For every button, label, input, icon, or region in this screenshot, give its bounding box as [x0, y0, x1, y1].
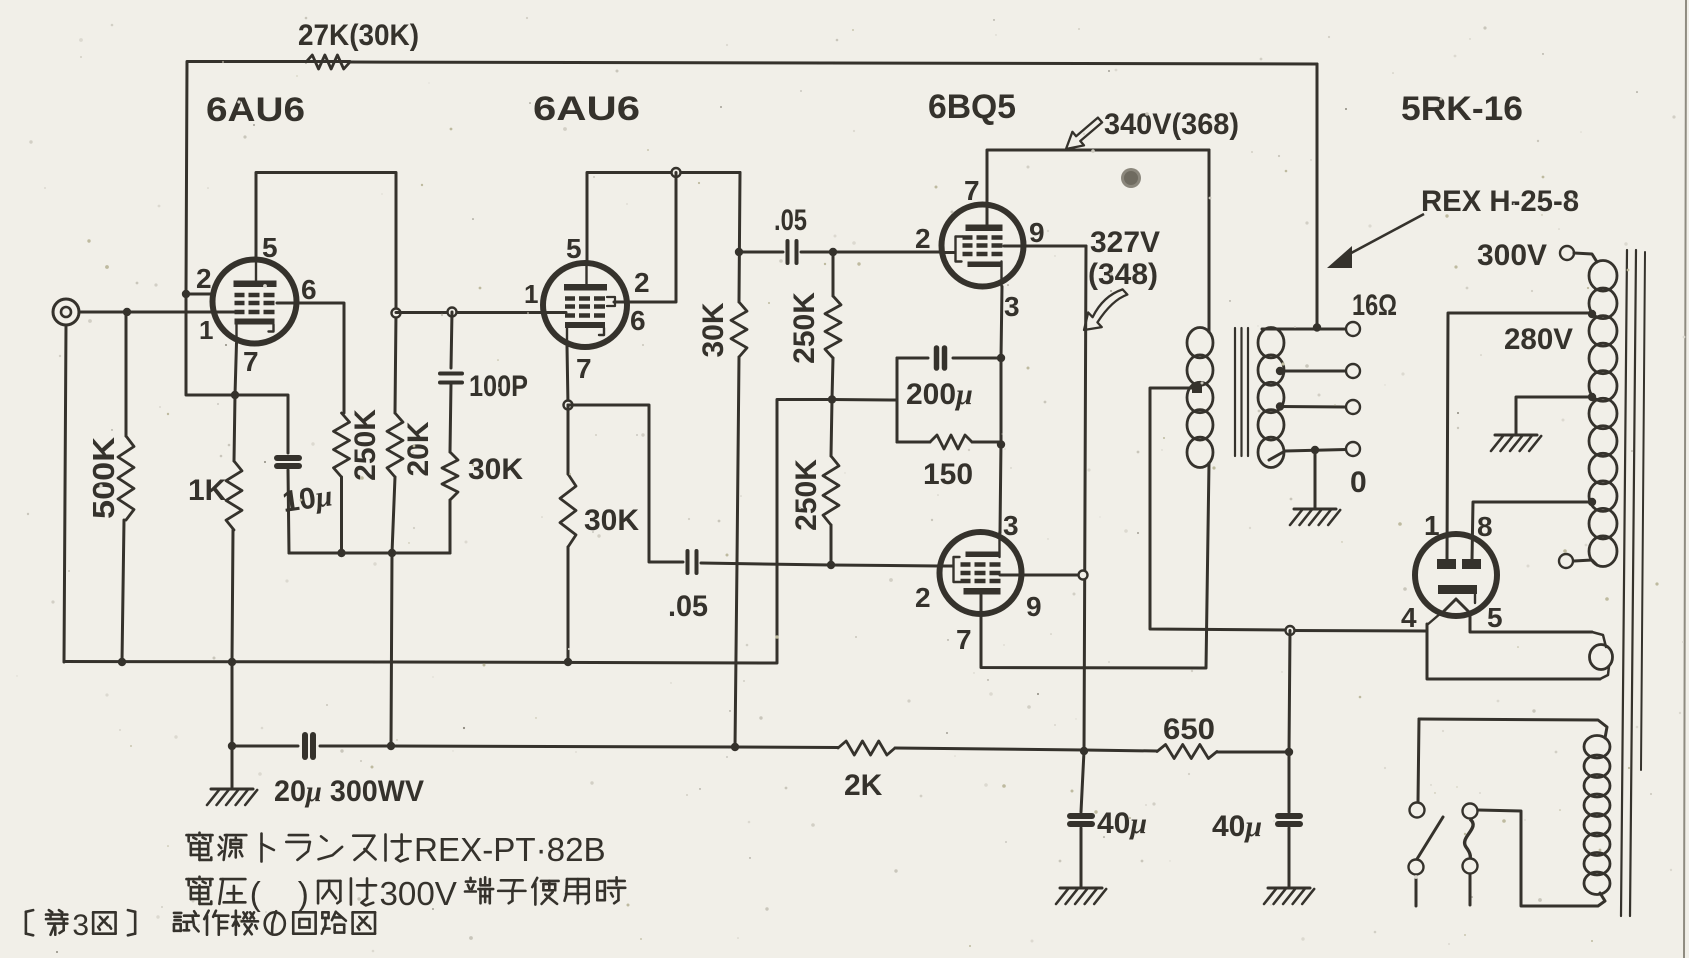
label 200u	[906, 378, 973, 411]
node: 250K a top	[829, 248, 837, 256]
wire: V4 pin3 cathode lead up	[1000, 442, 1001, 533]
node: HV center tap	[1588, 393, 1596, 401]
note line 1: power transformer is REX-PT-82B	[186, 832, 605, 869]
V2 pin label 7	[576, 353, 592, 384]
label 250K a (rotated)	[788, 292, 821, 364]
label 1K	[188, 474, 227, 507]
svg-text:3: 3	[72, 909, 89, 942]
tube V1 internals	[234, 261, 277, 343]
svg-text:150: 150	[923, 458, 973, 491]
svg-text:340V(368): 340V(368)	[1104, 108, 1239, 141]
wire: 30K b bottom lead	[567, 547, 570, 662]
wire: feedback top-left corner down left side	[186, 62, 350, 295]
capacitor C4 .05 a	[788, 241, 797, 263]
wire: 500K bottom lead	[122, 520, 124, 662]
label 100P	[469, 370, 528, 403]
node: 500K on ground bus	[118, 658, 126, 666]
wire: 40u a ground lead	[1080, 828, 1083, 887]
switch S2 wavy blade	[1465, 819, 1474, 858]
svg-text:250K: 250K	[790, 459, 823, 531]
node: B+ junction	[1286, 626, 1295, 635]
node: 500K top junction	[123, 308, 131, 316]
label 150	[923, 458, 973, 491]
svg-text:5: 5	[1487, 602, 1503, 633]
wire: V3 pin9 screen lead	[1004, 245, 1086, 248]
wire: mid junction to cathode box	[832, 398, 897, 402]
wire: .05 b to V4 grid	[701, 563, 939, 566]
node: main ground junction	[228, 742, 236, 750]
wire: 40u b lead	[1288, 752, 1291, 812]
svg-text:250K: 250K	[349, 409, 382, 481]
V3 pin label 3	[1004, 291, 1020, 322]
tube V3 internals	[956, 225, 1003, 287]
capacitor C8 40u b	[1278, 816, 1300, 824]
label 40u a	[1097, 807, 1147, 840]
wire: V3 pin7 plate lead up	[986, 151, 989, 227]
V3 pin label 2	[915, 223, 931, 254]
caption: Fig.3 prototype circuit diagram	[26, 909, 375, 942]
wire: jack sleeve down to ground bus	[64, 325, 66, 662]
V5 pin label 4	[1401, 602, 1417, 633]
terminal 16 ohm	[1346, 322, 1360, 336]
wire: bias box bottom	[897, 441, 1001, 444]
wire: V2 cathode to .05 cap	[568, 405, 683, 562]
input jack J1 inner	[61, 307, 71, 317]
wire: V3 pin3 cathode lead	[1001, 287, 1002, 359]
svg-text:2: 2	[196, 263, 212, 294]
terminal 300V	[1560, 246, 1574, 260]
capacitor C7 40u a	[1070, 816, 1092, 824]
wire: B+ bus segment c	[895, 748, 1157, 751]
wire: cathode node to 10u	[235, 395, 288, 453]
resistor R2 1K	[226, 461, 242, 530]
wire: 250K a leads	[832, 252, 833, 399]
wire: screen supply drop	[1084, 246, 1086, 752]
capacitor C2 10u	[277, 458, 299, 466]
tube V5 envelope	[1415, 534, 1497, 616]
resistor R8 250K grid a	[825, 296, 841, 358]
node: 20K bottom / B+ feed	[388, 549, 396, 557]
node: 16ohm feedback junction	[1313, 323, 1321, 331]
svg-text:1: 1	[199, 315, 213, 345]
wire: 10u bottom lead	[288, 470, 289, 553]
wire: 40u b ground lead	[1288, 828, 1291, 887]
resistor R10 150	[930, 435, 972, 449]
wire: HV center tap to ground	[1516, 397, 1592, 434]
label 10u	[280, 479, 334, 519]
wire: V5 pin4 lead and B+ out	[1427, 624, 1600, 679]
V1 pin label 5	[262, 232, 278, 263]
wire: B+ bus segment b	[320, 746, 838, 748]
wire: 30K b top lead	[567, 405, 570, 474]
annotation arrow REXH	[1327, 214, 1424, 268]
node: cathode line top	[997, 354, 1005, 362]
svg-text:1K: 1K	[188, 474, 227, 507]
V5 plate 1	[1437, 559, 1456, 569]
svg-text:30K: 30K	[584, 504, 639, 537]
V5 pin label 5	[1487, 602, 1503, 633]
wire: V4 pin9 screen lead	[1000, 574, 1083, 577]
wire: secondary tap 2	[1280, 405, 1346, 409]
resistor R7 30K plate feed	[731, 302, 747, 357]
V1 pin label 7	[243, 346, 259, 377]
ground: OPT secondary	[1290, 509, 1340, 525]
OPT core	[1235, 328, 1248, 456]
ground: 40u b	[1264, 888, 1314, 904]
V2 pin label 1	[524, 279, 538, 309]
svg-text:6BQ5: 6BQ5	[928, 88, 1016, 126]
svg-text:280V: 280V	[1504, 323, 1573, 356]
resistor R12 650	[1157, 745, 1217, 759]
svg-text:30K: 30K	[468, 453, 523, 486]
svg-text:300V: 300V	[379, 876, 456, 913]
svg-text:5RK-16: 5RK-16	[1401, 90, 1523, 128]
svg-text:500K: 500K	[86, 436, 121, 519]
wire: 30K c bottom lead	[735, 357, 739, 747]
capacitor C1 20u 300WV	[305, 735, 313, 757]
terminal tap1	[1346, 364, 1360, 378]
wire: OPT primary bottom lead	[1206, 463, 1209, 668]
node: OPT primary tap	[1192, 383, 1202, 393]
node: cathode line bottom	[997, 440, 1005, 448]
svg-text:1: 1	[524, 279, 538, 309]
node: 1K/ground riser on bus1	[228, 658, 236, 666]
wire: V5 pin1 lead from 280V	[1447, 313, 1592, 560]
V1 pin label 6	[301, 274, 317, 305]
svg-text:7: 7	[576, 353, 592, 384]
T2 5V winding	[1590, 645, 1613, 670]
switch S1 blade	[1417, 817, 1443, 859]
label 20u 300WV	[274, 775, 424, 808]
node: 30K b on ground bus	[564, 658, 572, 666]
wire: V2 pin2/6 hook lead	[614, 173, 676, 303]
svg-text:300V: 300V	[1477, 239, 1547, 272]
note line 2: voltages in parens when using 300V terminal	[186, 876, 625, 913]
svg-text:7: 7	[243, 346, 259, 377]
V5 cathode bar	[1438, 585, 1477, 594]
svg-text:2: 2	[915, 223, 931, 254]
V5 filament	[1441, 599, 1471, 614]
svg-text:40μ: 40μ	[1212, 810, 1262, 843]
label 300V	[1477, 239, 1547, 272]
node: HV tap 280V b	[1588, 498, 1596, 506]
wire: V5 pin5 lead	[1470, 612, 1592, 632]
T2 primary winding	[1584, 736, 1610, 895]
label 30K a	[468, 453, 523, 486]
input jack J1 outer	[53, 299, 79, 325]
capacitor C6 200u	[937, 348, 945, 368]
svg-text:327V: 327V	[1090, 226, 1160, 259]
OPT secondary winding	[1258, 328, 1284, 468]
wire: S2 to mains	[1469, 874, 1472, 905]
wire: 1K bottom lead	[232, 530, 233, 662]
label 40u b	[1212, 810, 1262, 843]
label 0	[1350, 466, 1367, 499]
label .05 b	[668, 590, 708, 623]
T2 HV winding	[1589, 261, 1617, 567]
wire: V1 pin2 lead	[186, 293, 214, 296]
wire: primary top lead	[1419, 719, 1607, 738]
wire: V1 pin7 lead down	[235, 343, 237, 395]
label 250K b (rotated)	[790, 459, 823, 531]
wire: 250K b leads	[831, 400, 832, 566]
wire: B+ feed riser	[391, 553, 392, 746]
tube V3 envelope	[942, 205, 1024, 287]
svg-text:REX-PT·82B: REX-PT·82B	[414, 832, 606, 869]
label tube V2 6AU6	[533, 90, 640, 128]
wire: 500K top lead	[125, 312, 128, 436]
wire: V3 pin2 grid lead	[941, 251, 955, 254]
wire: V2 pin5 lead up	[586, 173, 589, 264]
wire: OPT primary top lead	[1208, 150, 1211, 332]
wire: .05 a to V3 grid	[801, 251, 941, 254]
OPT primary winding	[1187, 328, 1213, 468]
node: 250K b bottom on grid wire	[827, 561, 835, 569]
svg-text:5: 5	[262, 232, 278, 263]
svg-text:REX H-25-8: REX H-25-8	[1421, 185, 1579, 218]
V2 grid hook	[607, 297, 615, 306]
V2 pin label 2	[634, 267, 650, 298]
svg-text:5: 5	[566, 233, 582, 264]
wire: V4 pin2 grid lead	[939, 565, 953, 568]
resistor R9 250K grid b	[823, 456, 839, 525]
node: B+ bus right end	[1285, 748, 1293, 756]
wire: OPT tap to B+	[1150, 388, 1288, 630]
ground: main	[207, 789, 257, 805]
V5 plate 2	[1462, 559, 1481, 569]
svg-text:.05: .05	[668, 590, 708, 623]
label 30K b	[584, 504, 639, 537]
svg-text:6AU6: 6AU6	[533, 90, 640, 128]
node: screen node on bus	[1080, 747, 1088, 755]
annotation arrow 340V	[1066, 118, 1102, 149]
wire: bias bus y553	[289, 552, 450, 555]
wire: bias box top	[897, 357, 1001, 360]
svg-text:4: 4	[1401, 602, 1417, 633]
svg-text:3: 3	[1004, 291, 1020, 322]
node: secondary bottom junction	[1311, 446, 1319, 454]
wire: V5 pin4 internal	[1427, 613, 1441, 625]
svg-text:1: 1	[1424, 510, 1440, 541]
wire: bias box right side	[1000, 358, 1003, 442]
label 500K (rotated)	[86, 436, 121, 519]
terminal 0 ohm	[1346, 442, 1360, 456]
svg-text:6AU6: 6AU6	[206, 91, 305, 129]
label REX H-25-8	[1421, 185, 1579, 218]
wire: V5 pin8 lead from 280V	[1472, 502, 1592, 560]
resistor R6 30K cathode	[560, 474, 576, 547]
resistor R-NFB 27K	[306, 55, 350, 69]
svg-text:6: 6	[301, 274, 317, 305]
wire: V2 pin7 lead down	[567, 346, 568, 405]
V4 pin label 9	[1026, 591, 1042, 622]
svg-text:(348): (348)	[1088, 258, 1158, 291]
tube V4 envelope	[940, 532, 1022, 614]
node: .05 a junction	[735, 248, 743, 256]
node: V1 plate line junction	[392, 309, 401, 318]
label .05 a	[774, 204, 807, 237]
label 250K (rotated)	[349, 409, 382, 481]
tube V2 envelope	[543, 263, 627, 347]
label tube V5 5RK-16	[1401, 90, 1523, 128]
wire: 30K bottom lead	[449, 500, 452, 553]
wire: 30K c top lead	[739, 173, 740, 303]
wire: HV top lead	[1574, 253, 1597, 262]
node: V4 screen tie	[1079, 571, 1088, 580]
tube V2 internals	[564, 264, 607, 346]
wire: secondary bottom lead	[1269, 450, 1346, 461]
wire: feedback line bottom to cathode node	[186, 294, 235, 395]
svg-text:40μ: 40μ	[1097, 807, 1147, 840]
node: 250K bottom	[337, 549, 345, 557]
wire: feedback vertical down to 16 ohm tap	[1316, 64, 1319, 327]
label tube V3 6BQ5	[928, 88, 1016, 126]
wire: main ground stem	[231, 746, 234, 787]
wire: ground bus	[64, 662, 777, 664]
svg-text:8: 8	[1477, 511, 1493, 542]
tube V1 envelope	[213, 260, 297, 344]
V2 pin label 5	[566, 233, 582, 264]
wire: HV bottom lead	[1574, 560, 1597, 565]
tube V4 internals	[954, 532, 1001, 595]
wire: primary bottom lead	[1478, 810, 1605, 906]
wire: bias box left side	[896, 358, 899, 442]
wire: B+ bus segment d	[1217, 751, 1289, 754]
label 650	[1163, 713, 1215, 746]
label tube V1 6AU6	[206, 91, 305, 129]
node: 100P junction	[448, 308, 457, 317]
node: 250K mid junction	[828, 395, 836, 403]
label 16 ohm	[1352, 289, 1397, 322]
svg-text:): )	[298, 876, 309, 913]
terminal tap2	[1346, 400, 1360, 414]
wire: B+ bus segment a	[232, 745, 298, 748]
V5 cathode hook	[1474, 594, 1476, 603]
wire: 5V top curve	[1592, 632, 1606, 647]
switch S1 bottom contact	[1409, 860, 1424, 875]
wire: 1K top lead	[234, 395, 235, 461]
wire: 100P bottom lead to 30K	[450, 383, 451, 452]
svg-text:9: 9	[1029, 217, 1045, 248]
wire: V4 pin7 plate lead	[981, 595, 1205, 668]
svg-text:0: 0	[1350, 466, 1367, 499]
node: 30K c on B+ bus	[731, 743, 739, 751]
wire: ground riser	[231, 662, 234, 746]
wire: 40u a lead	[1081, 751, 1084, 812]
terminal HV bottom	[1559, 554, 1573, 568]
svg-text:2K: 2K	[844, 769, 883, 802]
V3 pin label 9	[1029, 217, 1045, 248]
wire: secondary tap 1	[1280, 370, 1346, 373]
svg-text:16Ω: 16Ω	[1352, 289, 1397, 322]
wire: 100P top lead	[451, 312, 452, 368]
wire: 20K bottom lead	[392, 477, 395, 553]
annotation arrow 327V	[1084, 289, 1127, 330]
node: V2 cathode junction	[564, 401, 573, 410]
node: V2 screen tie	[672, 168, 681, 177]
wire: feedback top horizontal to right	[350, 62, 1317, 64]
switch S2 top contact	[1463, 804, 1478, 819]
V1 pin label 1	[199, 315, 213, 345]
svg-text:9: 9	[1026, 591, 1042, 622]
svg-text:20K: 20K	[402, 421, 435, 476]
wire: V1 pin6 lead to 250K	[277, 303, 344, 413]
svg-text:650: 650	[1163, 713, 1215, 746]
wire: 20K top lead	[395, 313, 396, 413]
resistor R11 2K	[838, 741, 895, 755]
wire: 250K bottom lead	[340, 477, 343, 553]
V4 pin label 7	[956, 624, 972, 655]
svg-text:7: 7	[956, 624, 972, 655]
node: pin2 to feedback line	[182, 290, 190, 298]
switch S2 bottom contact	[1463, 859, 1478, 874]
svg-text:250K: 250K	[788, 292, 821, 364]
svg-text:2: 2	[634, 267, 650, 298]
svg-text:20μ 300WV: 20μ 300WV	[274, 775, 424, 808]
resistor R4 20K	[387, 413, 403, 477]
wire: B+ from pin4 to left	[1290, 629, 1427, 633]
node: tap2	[1276, 402, 1284, 410]
wire: ground riser from bus1	[777, 400, 832, 663]
svg-text:(: (	[250, 876, 261, 913]
svg-text:7: 7	[964, 175, 980, 206]
node: V1 cathode junction	[231, 391, 239, 399]
label 30K c (rotated)	[697, 302, 730, 357]
svg-text:27K(30K): 27K(30K)	[298, 19, 419, 52]
svg-text:30K: 30K	[697, 302, 730, 357]
V5 pin label 8	[1477, 511, 1493, 542]
V2 pin label 6	[630, 305, 646, 336]
wire: V2 top wire	[587, 171, 740, 174]
svg-text:200μ: 200μ	[906, 378, 973, 411]
label 340V(368)	[1104, 108, 1239, 141]
node: tap1	[1276, 367, 1284, 375]
V4 pin label 3	[1003, 510, 1019, 541]
svg-text:100P: 100P	[469, 370, 528, 403]
switch S1 top contact	[1410, 803, 1425, 818]
capacitor C5 .05 b	[688, 551, 697, 573]
wire: 5V bottom curve	[1600, 666, 1609, 679]
V3 pin label 7	[964, 175, 980, 206]
wire: B+ riser to bus	[1289, 631, 1290, 753]
label 27K(30K)	[298, 19, 419, 52]
node: B+ feed junction	[387, 742, 395, 750]
V1 pin label 2	[196, 263, 212, 294]
wire: 340V top wire	[987, 149, 1209, 152]
V5 pin label 1	[1424, 510, 1440, 541]
node: HV tap 280V a	[1588, 310, 1596, 318]
V4 pin label 2	[915, 582, 931, 613]
label 327V	[1090, 226, 1160, 259]
svg-text:3: 3	[1003, 510, 1019, 541]
wire: V1 plate box top	[256, 173, 396, 314]
scan smudge	[1121, 168, 1141, 188]
scan page edge	[1684, 0, 1686, 958]
wire: S1 to mains	[1415, 875, 1418, 906]
wire: primary top to switch	[1418, 719, 1419, 802]
svg-text:.05: .05	[774, 204, 807, 237]
resistor R3 250K	[334, 413, 350, 477]
label 280V	[1504, 323, 1573, 356]
svg-text:2: 2	[915, 582, 931, 613]
wire: jack tip to V1 grid	[79, 311, 234, 314]
wire: V1 pin5 lead up	[255, 173, 258, 261]
label (348)	[1088, 258, 1158, 291]
wire: secondary top lead	[1262, 328, 1346, 331]
svg-text:6: 6	[630, 305, 646, 336]
wire: .05 a left lead	[739, 251, 783, 254]
label 2K	[844, 769, 883, 802]
